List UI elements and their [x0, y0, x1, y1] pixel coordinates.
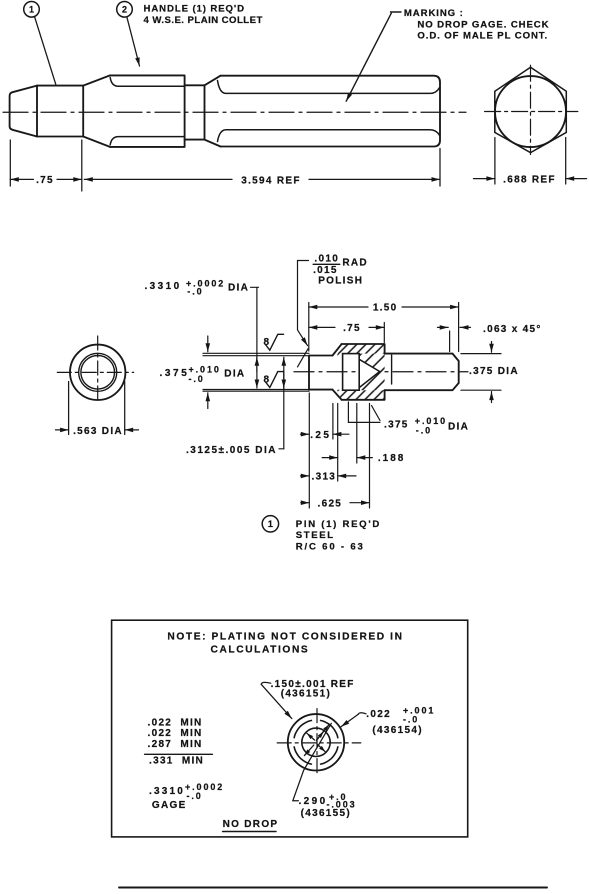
svg-text:O.D. OF MALE PL CONT.: O.D. OF MALE PL CONT. [417, 30, 548, 41]
svg-text:.75: .75 [36, 175, 54, 186]
svg-text:(436155): (436155) [301, 808, 351, 819]
svg-text:+.010: +.010 [189, 365, 221, 375]
svg-text:CALCULATIONS: CALCULATIONS [211, 644, 310, 655]
svg-text:.3310: .3310 [149, 786, 185, 797]
svg-text:3.594 REF: 3.594 REF [241, 175, 301, 186]
svg-text:DIA: DIA [448, 421, 469, 432]
svg-text:GAGE: GAGE [152, 800, 187, 811]
svg-text:DIA: DIA [228, 282, 249, 293]
svg-text:.25: .25 [310, 430, 331, 441]
svg-text:PIN (1) REQ'D: PIN (1) REQ'D [296, 519, 381, 530]
svg-text:.563 DIA: .563 DIA [73, 426, 123, 437]
svg-text:DIA: DIA [224, 369, 245, 380]
svg-text:POLISH: POLISH [318, 275, 363, 286]
svg-text:.3125±.005 DIA: .3125±.005 DIA [186, 445, 277, 456]
svg-text:.063 x 45°: .063 x 45° [483, 324, 542, 335]
svg-text:1: 1 [29, 5, 34, 15]
svg-text:.313: .313 [312, 472, 337, 483]
svg-text:.022 MIN: .022 MIN [148, 717, 203, 728]
svg-text:R/C 60 - 63: R/C 60 - 63 [296, 542, 365, 553]
svg-text:.287 MIN: .287 MIN [148, 739, 203, 750]
svg-text:1: 1 [268, 519, 273, 529]
svg-text:.022 MIN: .022 MIN [148, 728, 203, 739]
svg-text:.688 REF: .688 REF [503, 175, 556, 186]
svg-text:(436154): (436154) [372, 725, 422, 736]
svg-text:-.0: -.0 [187, 287, 203, 297]
svg-text:RAD: RAD [342, 258, 368, 269]
svg-text:NO DROP: NO DROP [223, 819, 279, 830]
svg-text:-.0: -.0 [416, 425, 432, 435]
svg-text:MARKING :: MARKING : [404, 8, 464, 19]
svg-text:.375 DIA: .375 DIA [469, 366, 519, 377]
svg-text:.188: .188 [378, 453, 405, 464]
svg-text:(436151): (436151) [281, 689, 331, 700]
svg-text:.010: .010 [314, 254, 339, 265]
svg-text:HANDLE (1) REQ'D: HANDLE (1) REQ'D [144, 4, 245, 15]
svg-text:.331 MIN: .331 MIN [149, 756, 204, 767]
svg-text:.022: .022 [366, 709, 391, 720]
svg-text:NO DROP GAGE. CHECK: NO DROP GAGE. CHECK [417, 19, 549, 30]
svg-text:.375: .375 [160, 368, 190, 379]
svg-text:-.0: -.0 [403, 715, 419, 725]
svg-text:4 W.S.E. PLAIN COLLET: 4 W.S.E. PLAIN COLLET [144, 15, 263, 26]
svg-text:8: 8 [264, 374, 271, 385]
svg-text:2: 2 [122, 5, 127, 15]
svg-text:.75: .75 [343, 323, 361, 334]
svg-text:1.50: 1.50 [373, 303, 398, 314]
svg-text:.625: .625 [318, 498, 343, 509]
svg-text:NOTE: PLATING NOT CONSIDERED I: NOTE: PLATING NOT CONSIDERED IN [167, 632, 403, 643]
svg-text:.290: .290 [299, 796, 328, 807]
svg-text:-.0: -.0 [189, 374, 205, 384]
svg-text:.375: .375 [384, 420, 409, 431]
svg-text:-.0: -.0 [187, 791, 203, 801]
svg-text:.3310: .3310 [145, 281, 182, 292]
svg-text:8: 8 [264, 337, 271, 348]
svg-text:STEEL: STEEL [296, 530, 335, 541]
